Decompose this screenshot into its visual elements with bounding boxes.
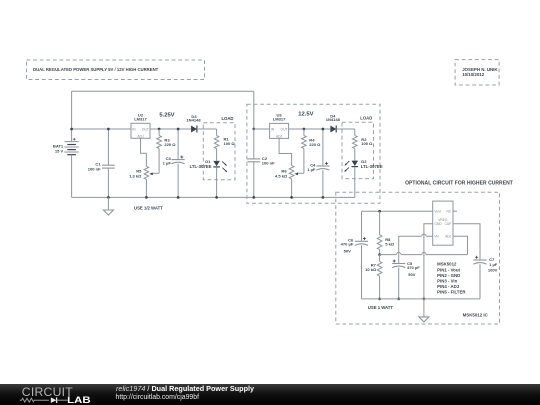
svg-text:100V: 100V (488, 268, 498, 273)
label D2 value (361, 164, 383, 169)
wire R4 bottom lead (303, 149, 305, 174)
svg-text:DUAL REGULATED POWER SUPPLY 5V: DUAL REGULATED POWER SUPPLY 5V / 12V HIG… (33, 67, 159, 72)
label D3 value (186, 117, 201, 122)
node C1 bottom junction (107, 196, 110, 199)
node R7 bottom junction (378, 298, 381, 301)
svg-text:12.5V: 12.5V (298, 112, 313, 118)
label USE 1/2 WATT (134, 206, 163, 211)
label PIN3 (437, 279, 458, 284)
title box (27, 60, 205, 80)
wire R3 bottom lead (158, 149, 160, 174)
label C3 value (163, 161, 172, 166)
capacitor C2 (247, 159, 260, 162)
svg-text:LTL-307EE: LTL-307EE (361, 164, 383, 169)
pin VREG ADJ (445, 234, 452, 238)
wire Vin path (399, 236, 433, 263)
svg-text:1 µF: 1 µF (489, 262, 498, 267)
svg-text:ADJ: ADJ (137, 135, 144, 139)
label R8 value (385, 241, 395, 246)
potentiometer R6 (289, 166, 294, 179)
potentiometer R5 (144, 166, 149, 179)
footer bar (0, 384, 540, 405)
svg-text:MSK5012: MSK5012 (437, 262, 457, 267)
wire C3 bottom (177, 164, 179, 198)
pin U3 IN (271, 127, 275, 131)
wire R2 top (354, 129, 356, 136)
wire C1 bottom (107, 168, 109, 197)
node C3 top junction (177, 128, 180, 131)
op-amp VREG box (433, 201, 453, 245)
label U3 LM317 (273, 117, 286, 122)
svg-text:IN: IN (132, 127, 136, 131)
label C2 (262, 156, 268, 161)
label PIN4 (437, 284, 460, 289)
svg-text:PIN2 - GND: PIN2 - GND (437, 273, 460, 278)
wire D2 bottom (354, 167, 356, 198)
wire bottom rail (72, 196, 355, 198)
node R5 bottom junction (145, 196, 148, 199)
svg-text:10/10/2012: 10/10/2012 (462, 72, 485, 77)
label R4 (309, 138, 315, 143)
label C2 value (262, 160, 275, 165)
svg-text:50V: 50V (408, 272, 416, 277)
wire U3 out rail (289, 128, 331, 130)
label C4 (310, 162, 316, 167)
author date (462, 72, 485, 77)
load box 2 (342, 122, 374, 178)
label R2 value (361, 141, 373, 146)
node GND bottom junction (423, 298, 426, 301)
label C6 voltage (344, 248, 352, 253)
wire R5 wiper (151, 172, 159, 174)
svg-text:100 nF: 100 nF (262, 160, 275, 165)
label LOAD 2 (360, 116, 372, 121)
wire C2 bottom (253, 162, 255, 198)
svg-text:10 kΩ: 10 kΩ (365, 267, 377, 272)
wire optional bottom rail (362, 298, 481, 300)
svg-text:ADJ: ADJ (276, 135, 283, 139)
node D1 bottom junction (215, 196, 218, 199)
node C1 top junction (107, 128, 110, 131)
svg-text:PIN3 - Vin: PIN3 - Vin (437, 279, 458, 284)
pin VREG Vout (434, 209, 441, 213)
label R4 value (309, 142, 321, 147)
pin VREG CAP (445, 222, 453, 226)
wire C2 top (253, 129, 255, 159)
svg-text:LOAD: LOAD (360, 116, 372, 121)
wire U2 out rail (150, 128, 191, 130)
wire R6 bottom (291, 179, 293, 198)
svg-text:Vin: Vin (434, 234, 439, 238)
svg-text:470 µF: 470 µF (407, 265, 420, 270)
node R8 top junction (378, 210, 381, 213)
label BAT1 (53, 144, 64, 149)
label R2 (361, 137, 367, 142)
svg-text:1 µF: 1 µF (307, 167, 316, 172)
resistor R7 lead (379, 255, 381, 262)
svg-text:100 nF: 100 nF (88, 166, 101, 171)
pin U3 ADJ (276, 135, 283, 139)
wire section2 feed (253, 91, 255, 129)
svg-text:PIN5 - FILTER: PIN5 - FILTER (437, 290, 466, 295)
label D1 (205, 159, 211, 164)
label C7 value (489, 262, 498, 267)
label VREG (438, 218, 448, 222)
label 5.25V (159, 112, 174, 118)
wire top rail (72, 90, 254, 92)
wire left vertical (71, 91, 73, 141)
wire R8 top lead (379, 211, 381, 235)
node C4 top junction (322, 128, 325, 131)
LED D1 (213, 161, 227, 172)
author name (462, 67, 498, 72)
svg-text:1N4148: 1N4148 (326, 117, 341, 122)
op-amp U3 box (270, 123, 289, 138)
svg-text:LOAD: LOAD (221, 116, 233, 121)
resistor R3 (157, 136, 162, 149)
wire C6 top (361, 211, 363, 241)
wire U2 ADJ jog (141, 138, 147, 166)
wire C6 bottom (361, 245, 363, 299)
wire feedback up (453, 236, 468, 254)
label C1 value (88, 166, 101, 171)
wire C5 bottom (398, 268, 400, 299)
resistor R4 (302, 136, 307, 149)
wire R8 bottom lead (379, 250, 381, 255)
label D4 value (326, 117, 341, 122)
wire GND pin path (424, 224, 433, 299)
label D2 (361, 159, 367, 164)
wire D4 to load (336, 128, 355, 130)
svg-text:LAB: LAB (67, 396, 90, 405)
svg-text:1N4148: 1N4148 (186, 117, 201, 122)
svg-text:1 µF: 1 µF (163, 161, 172, 166)
svg-text:NC: NC (447, 209, 452, 213)
capacitor C5 (392, 260, 405, 268)
label 15 V (55, 149, 64, 154)
wire R5 bottom (145, 179, 147, 197)
svg-text:LTL-307EE: LTL-307EE (190, 164, 212, 169)
node C2 bottom junction (252, 196, 255, 199)
svg-text:4.5 kΩ: 4.5 kΩ (275, 174, 288, 179)
label C7 voltage (488, 268, 498, 273)
label C5 value (407, 265, 420, 270)
wire battery bottom (71, 155, 73, 198)
node C5 bottom junction (397, 298, 400, 301)
label R3 value (164, 142, 176, 147)
pin VREG GND (434, 222, 442, 226)
pin U2 ADJ (137, 135, 144, 139)
LED D2 (345, 161, 359, 172)
label C5 (407, 261, 413, 266)
label PIN5 (437, 290, 466, 295)
svg-text:1.3 kΩ: 1.3 kΩ (129, 174, 142, 179)
svg-text:IN: IN (271, 127, 275, 131)
svg-text:MSK5012 IC: MSK5012 IC (463, 312, 489, 317)
wire D1 bottom (216, 167, 218, 197)
node feed junction (252, 128, 255, 131)
label U2 LM317 (134, 117, 147, 122)
label MSK5012 IC (463, 312, 489, 317)
wire C4 top (322, 129, 324, 166)
battery BAT1 (64, 138, 78, 155)
svg-text:PIN4 - ADJ: PIN4 - ADJ (437, 284, 460, 289)
wire D3 to load (197, 128, 217, 130)
capacitor C6 (355, 237, 368, 245)
capacitor C3 (172, 156, 185, 164)
svg-text:GND: GND (434, 222, 442, 226)
wire C3 top (177, 129, 179, 160)
label R7 value (365, 267, 377, 272)
resistor R8 (377, 235, 382, 250)
wire R7 bottom (379, 276, 381, 299)
logo diode (51, 397, 57, 403)
capacitor C4 (316, 162, 329, 170)
section 2 box (247, 104, 380, 203)
svg-text:50V: 50V (344, 248, 352, 253)
wire CAP pin path (453, 224, 480, 260)
wire feedback horizontal (380, 254, 468, 256)
svg-text:PIN1 - Vout: PIN1 - Vout (437, 267, 460, 272)
pin VREG Vin (434, 234, 439, 238)
svg-text:100 Ω: 100 Ω (361, 141, 373, 146)
label PIN1 (437, 267, 460, 272)
wire feed to U3 (254, 128, 270, 130)
resistor R2 (353, 136, 358, 149)
label R7 (371, 263, 377, 268)
diode D3 (191, 126, 197, 133)
svg-text:LM317: LM317 (134, 117, 147, 122)
svg-text:15 V: 15 V (55, 149, 64, 154)
svg-text:OPTIONAL CIRCUIT FOR HIGHER CU: OPTIONAL CIRCUIT FOR HIGHER CURRENT (405, 181, 513, 187)
label R1 (224, 137, 230, 142)
svg-text:OUT: OUT (142, 127, 149, 131)
label R6 value (275, 174, 288, 179)
label R3 (164, 137, 170, 142)
svg-text:470 µF: 470 µF (341, 242, 354, 247)
svg-text:Vout: Vout (434, 209, 441, 213)
title text (33, 67, 159, 72)
svg-text:100 Ω: 100 Ω (224, 141, 236, 146)
svg-text:CIRCUIT: CIRCUIT (22, 385, 73, 399)
svg-text:CAP: CAP (445, 222, 453, 226)
ground optional (419, 299, 429, 322)
svg-text:OUT: OUT (281, 127, 288, 131)
svg-text:LM317: LM317 (273, 117, 286, 122)
svg-text:220 Ω: 220 Ω (164, 142, 176, 147)
label R1 value (224, 141, 236, 146)
wire C1 top (107, 129, 109, 165)
label R5 (136, 168, 142, 173)
wire R3 top lead (158, 129, 160, 136)
capacitor C1 (102, 165, 115, 168)
label R8 (385, 237, 391, 242)
pin U2 OUT (142, 127, 149, 131)
wire R1 to LED (216, 149, 218, 161)
label U3 (277, 112, 283, 117)
logo resistor (20, 398, 49, 402)
svg-text:5.25V: 5.25V (159, 112, 174, 118)
wire R4 top lead (303, 129, 305, 136)
hop over GND wire (422, 252, 427, 255)
wire battery branch (72, 128, 131, 130)
label PIN2 (437, 273, 460, 278)
label USE 1 WATT (368, 305, 394, 310)
node R4 top junction (303, 128, 306, 131)
label C6 (348, 237, 354, 242)
wire U3 ADJ jog (279, 138, 292, 165)
label C5 voltage (408, 272, 416, 277)
wiper arrow R5 (149, 173, 153, 176)
label C1 (95, 161, 101, 166)
label D1 value (190, 164, 212, 169)
node feedback junction (378, 253, 381, 256)
diode D4 (330, 126, 336, 133)
label 12.5V (298, 112, 313, 118)
node C3 bottom junction (177, 196, 180, 199)
node C4 bottom junction (322, 196, 325, 199)
wire R1 top (216, 129, 218, 136)
label R5 value (129, 174, 142, 179)
capacitor C7 (473, 256, 486, 264)
wire C4 bottom (322, 170, 324, 197)
load box 1 (203, 123, 235, 180)
label C7 (489, 257, 495, 262)
optional box (336, 192, 500, 324)
wire R6 wiper (296, 172, 304, 174)
pin U3 OUT (281, 127, 288, 131)
label C4 value (307, 167, 316, 172)
svg-text:USE 1/2 WATT: USE 1/2 WATT (134, 206, 163, 211)
resistor R1 (214, 136, 219, 149)
node battery branch junction (70, 128, 73, 131)
resistor R7 (377, 261, 382, 276)
label U2 (138, 112, 144, 117)
label D3 (191, 114, 197, 119)
ground main (103, 197, 113, 215)
svg-text:220 Ω: 220 Ω (309, 142, 321, 147)
label C3 (166, 156, 172, 161)
hop over GND on Vin (422, 234, 427, 237)
wire R2 to LED (354, 149, 356, 161)
wiper arrow R6 (294, 173, 298, 176)
label OPTIONAL (405, 181, 513, 187)
pin VREG NC (447, 209, 452, 213)
svg-text:ADJ: ADJ (445, 234, 452, 238)
wire C7 bottom (479, 264, 481, 299)
label C6 value (341, 242, 354, 247)
wire optional top (362, 210, 433, 212)
pin U2 IN (132, 127, 136, 131)
wire NC stub (453, 210, 457, 212)
svg-text:USE 1 WATT: USE 1 WATT (368, 305, 394, 310)
node R3 top junction (158, 128, 161, 131)
label R6 (281, 169, 287, 174)
author box (455, 60, 499, 85)
label LOAD 1 (221, 116, 233, 121)
svg-text:5 kΩ: 5 kΩ (385, 241, 395, 246)
hop over C5 wire (396, 252, 401, 255)
op-amp U2 box (131, 123, 150, 138)
label D4 (330, 113, 336, 118)
node R6 bottom junction (290, 196, 293, 199)
label MSK5012 (437, 262, 457, 267)
